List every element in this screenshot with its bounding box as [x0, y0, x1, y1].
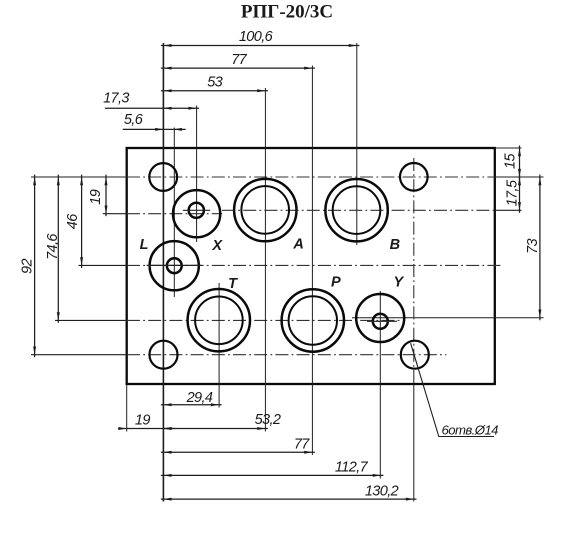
- extension line plate left edge lower: [126, 385, 128, 432]
- port L outer circle: [150, 241, 199, 290]
- port A outer circle: [234, 179, 296, 241]
- extension line column A: [264, 88, 266, 432]
- port B inner circle: [333, 186, 381, 234]
- svg-text:15: 15: [503, 153, 519, 169]
- extension line T-P row left: [55, 319, 127, 321]
- extension line bottom row left: [31, 354, 127, 356]
- extension line row A-B right: [495, 209, 522, 211]
- extension line row1 right: [495, 176, 544, 178]
- label A: [292, 237, 303, 253]
- svg-text:77: 77: [231, 52, 247, 68]
- extension line X outer row left: [103, 213, 127, 215]
- dimension 74,6 left: [45, 175, 61, 323]
- port L crosshair: [147, 264, 202, 266]
- hole bottom-right Ø14: [401, 341, 429, 369]
- svg-text:130,2: 130,2: [365, 484, 399, 500]
- svg-text:53: 53: [207, 75, 222, 91]
- dimension 100,6 top: [161, 29, 360, 47]
- port P inner circle: [289, 296, 337, 344]
- dimension 112,7 bottom: [161, 460, 384, 477]
- label Y: [393, 274, 404, 290]
- svg-text:112,7: 112,7: [335, 460, 369, 476]
- extension line datum column: [162, 43, 164, 502]
- extension line right holes column lower: [413, 384, 415, 502]
- dimension 92 left: [19, 175, 36, 358]
- svg-text:A: A: [292, 237, 303, 253]
- title РПГ-20/3С: [241, 2, 333, 23]
- centerline row A-B horizontal: [222, 209, 495, 211]
- extension line Y outer horizontal: [352, 317, 544, 319]
- svg-text:74,6: 74,6: [45, 233, 61, 260]
- svg-text:6отв.Ø14: 6отв.Ø14: [442, 423, 499, 438]
- extension line column L: [173, 128, 175, 298]
- extension line row1 left: [31, 176, 127, 178]
- port A inner circle: [241, 186, 289, 234]
- centerline right holes column: [413, 158, 415, 384]
- port L pilot hole: [167, 258, 182, 273]
- label B: [390, 237, 400, 253]
- port Y outer circle: [356, 294, 404, 342]
- svg-text:92: 92: [19, 259, 35, 274]
- port Y crosshair: [367, 320, 397, 322]
- extension line plate top edge right: [495, 147, 522, 149]
- leader line 6 holes Ø14: [411, 343, 494, 436]
- hole top-left: [149, 163, 177, 191]
- dimension 73 right: [525, 175, 541, 321]
- dimension 17,5 right: [504, 175, 521, 213]
- port T inner circle: [195, 297, 243, 345]
- dimension 53,2 bottom: [163, 412, 281, 430]
- centerline row1 horizontal: [127, 176, 495, 178]
- centerline X outer horizontal: [127, 213, 222, 215]
- port X pilot hole: [189, 203, 204, 218]
- port T outer circle: [188, 289, 250, 351]
- port Y pilot hole: [373, 314, 388, 329]
- extension line column X: [196, 106, 198, 243]
- port P outer circle: [282, 289, 344, 351]
- dimension 17,3 top: [103, 91, 199, 110]
- centerline T-P row horizontal: [127, 319, 402, 321]
- dimension 46 left: [65, 175, 83, 268]
- centerline bottom row horizontal: [127, 354, 446, 356]
- svg-text:53,2: 53,2: [255, 412, 281, 428]
- svg-text:46: 46: [65, 213, 81, 229]
- svg-text:100,6: 100,6: [239, 29, 274, 45]
- svg-text:5,6: 5,6: [124, 112, 144, 128]
- plate outline: [127, 148, 495, 384]
- dimension 15 right: [503, 146, 522, 180]
- dimension 77 bottom: [161, 437, 315, 454]
- dimension 130,2 bottom: [161, 484, 417, 501]
- svg-text:77: 77: [294, 437, 310, 453]
- hole top-right: [400, 163, 428, 191]
- dimension 19 left: [88, 175, 108, 217]
- svg-text:19: 19: [88, 189, 104, 204]
- port X outer circle: [173, 190, 220, 237]
- extension line column Y: [379, 291, 381, 479]
- port B outer circle: [325, 179, 387, 241]
- hole bottom-left: [150, 341, 178, 369]
- dimension 29,4 bottom: [161, 390, 222, 406]
- extension line column T: [218, 283, 220, 408]
- label P: [331, 274, 341, 290]
- svg-text:17,5: 17,5: [504, 179, 520, 206]
- svg-text:19: 19: [135, 413, 150, 429]
- extension line column B: [356, 43, 358, 245]
- dimension 5,6 top: [123, 112, 186, 131]
- svg-text:P: P: [331, 274, 341, 290]
- svg-text:73: 73: [525, 239, 541, 254]
- dimension 77 top: [161, 52, 315, 70]
- label 6отв.Ø14: [442, 423, 499, 438]
- label X: [211, 238, 223, 254]
- port X crosshair: [183, 209, 210, 211]
- label L: [140, 237, 148, 253]
- svg-text:17,3: 17,3: [103, 91, 129, 107]
- svg-text:L: L: [140, 237, 148, 253]
- svg-text:B: B: [390, 237, 400, 253]
- svg-text:29,4: 29,4: [186, 390, 213, 406]
- extension line L row left: [79, 264, 128, 266]
- dimension 53 top: [161, 75, 268, 93]
- extension line column P: [311, 66, 313, 456]
- centerline L row horizontal: [127, 264, 503, 266]
- label T: [228, 276, 238, 292]
- dimension 19 bottom: [118, 413, 175, 431]
- svg-text:РПГ-20/3С: РПГ-20/3С: [241, 2, 333, 23]
